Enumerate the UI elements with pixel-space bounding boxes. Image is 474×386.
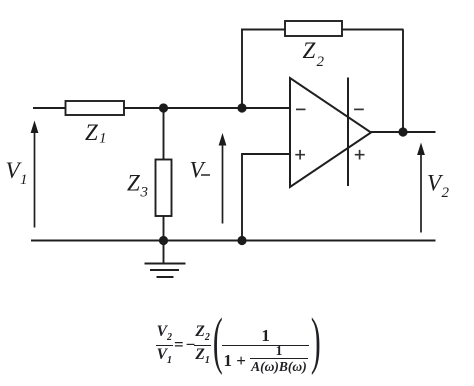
impedance Z3 — [156, 160, 172, 217]
svg-text:1: 1 — [99, 131, 107, 147]
impedance Z1 — [66, 101, 125, 115]
node B junction dot (input / feedback) — [237, 103, 246, 112]
wire: feedback top horizontal — [241, 29, 404, 31]
label Z2 — [303, 38, 325, 70]
arrow V1 — [31, 121, 39, 228]
wire: non-inverting input L-shape from ground rail — [242, 154, 290, 241]
label V- — [190, 158, 211, 183]
node A junction dot (input / Z3) — [159, 103, 168, 112]
wire: bottom ground rail — [31, 240, 436, 242]
svg-text:1: 1 — [20, 172, 28, 188]
wire: output horizontal — [371, 131, 436, 133]
op-amp output minus sign (right of bar) — [354, 108, 364, 110]
node C junction dot (output / feedback) — [398, 127, 407, 136]
wire: main input horizontal net V1 to inverting input — [33, 107, 290, 109]
label Z1 — [85, 120, 107, 147]
node E junction dot (ground rail / Z3) — [159, 236, 168, 245]
svg-text:Z: Z — [85, 120, 98, 145]
svg-text:Z: Z — [127, 171, 140, 196]
wire: vertical from Z3 bottom to ground rail — [163, 216, 165, 241]
ground symbol — [145, 241, 186, 278]
wire: feedback right vertical drop to output node C — [402, 30, 404, 133]
op-amp output plus sign (right of bar) — [355, 150, 365, 160]
arrow V- (inverting node voltage) — [219, 133, 227, 224]
label V2 — [427, 171, 450, 202]
wire: vertical from node A down to Z3 top — [163, 108, 165, 160]
op-amp inverting input minus sign — [296, 108, 306, 110]
svg-text:V: V — [190, 158, 207, 183]
impedance Z2 — [285, 21, 342, 36]
svg-text:Z: Z — [303, 38, 316, 63]
svg-text:2: 2 — [317, 54, 325, 70]
wire: feedback left vertical drop to node B — [241, 30, 243, 109]
op-amp output polarity bar — [347, 78, 349, 187]
formula: V2/V1 = -Z2/Z1 (1/(1+1/(A(w)B(w)))) — [2, 318, 474, 368]
svg-text:2: 2 — [442, 185, 450, 201]
label V1 — [6, 158, 28, 188]
arrow V2 — [417, 143, 425, 233]
svg-text:3: 3 — [140, 185, 149, 201]
op-amp U1 triangle — [290, 78, 371, 187]
node D junction dot (ground rail / non-inverting) — [237, 236, 246, 245]
op-amp non-inverting input plus sign — [295, 150, 305, 160]
label Z3 — [127, 171, 148, 201]
